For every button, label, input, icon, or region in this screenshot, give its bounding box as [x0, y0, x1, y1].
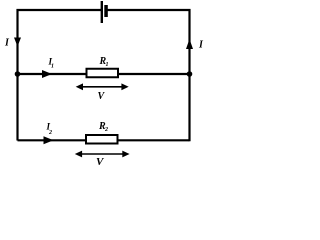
svg-text:2: 2 — [48, 130, 52, 136]
svg-text:2: 2 — [104, 127, 108, 133]
svg-text:1: 1 — [106, 62, 109, 68]
svg-text:1: 1 — [51, 64, 54, 70]
